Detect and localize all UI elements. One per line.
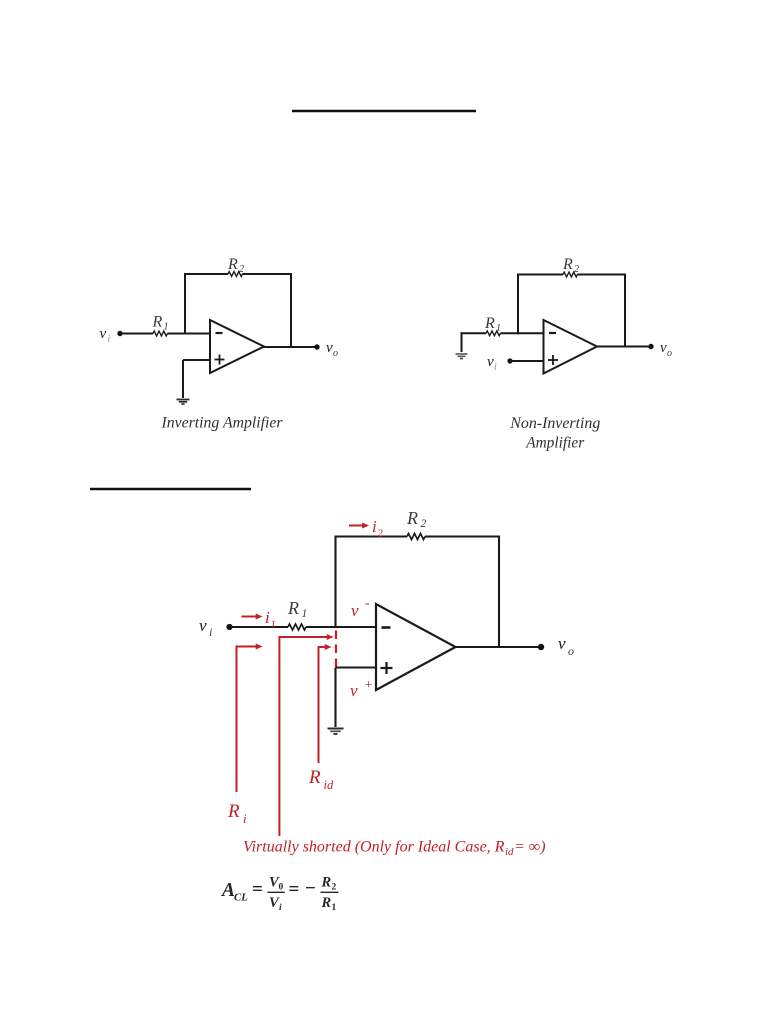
- resistor R2: [563, 272, 577, 277]
- svg-text:i: i: [243, 812, 247, 826]
- svg-text:id: id: [324, 778, 334, 792]
- op-amp U1: [210, 320, 264, 373]
- svg-text:= ∞): = ∞): [514, 839, 546, 856]
- svg-text:R: R: [321, 895, 332, 911]
- svg-text:=: =: [252, 879, 263, 900]
- svg-text:Virtually shorted (Only for Id: Virtually shorted (Only for Ideal Case, …: [243, 839, 505, 856]
- op-amp U3: [376, 604, 456, 690]
- wire feedback right vertical: [498, 536, 500, 649]
- svg-text:id: id: [505, 846, 514, 858]
- virtual short dashed line: [335, 631, 337, 668]
- wire output: [455, 646, 542, 648]
- resistor R1: [486, 331, 500, 336]
- wire feedback top right: [242, 273, 292, 275]
- wire feedback top left: [184, 273, 228, 275]
- svg-text:o: o: [568, 644, 574, 658]
- op-amp minus sign: [549, 332, 556, 334]
- svg-text:i: i: [372, 517, 377, 536]
- node vi dot: [507, 358, 512, 363]
- svg-text:R: R: [562, 256, 573, 273]
- svg-text:R: R: [308, 767, 321, 788]
- svg-text:=: =: [289, 879, 300, 900]
- svg-text:R: R: [484, 315, 495, 332]
- svg-text:CL: CL: [234, 892, 248, 904]
- wire feedback right vertical: [624, 274, 626, 347]
- junction to feedback: [517, 274, 519, 335]
- resistor R1: [153, 331, 167, 336]
- wire R1 to inverting input: [306, 626, 376, 628]
- op-amp minus sign: [382, 626, 391, 629]
- svg-text:v: v: [487, 354, 494, 370]
- heading underline (top): [292, 110, 476, 113]
- svg-text:2: 2: [332, 883, 337, 893]
- wire feedback top right: [425, 535, 500, 537]
- current arrow i2: [349, 525, 364, 527]
- svg-text:i: i: [209, 625, 212, 639]
- op-amp minus sign: [216, 332, 223, 334]
- svg-text:v: v: [350, 681, 358, 700]
- wire feedback top left: [335, 535, 408, 537]
- svg-text:v: v: [326, 340, 333, 356]
- wire output: [596, 346, 651, 348]
- svg-text:i: i: [108, 334, 111, 345]
- svg-text:1: 1: [302, 608, 308, 620]
- svg-text:A: A: [220, 880, 235, 901]
- resistor R2: [228, 272, 242, 277]
- wire input to R1: [230, 626, 289, 628]
- svg-text:2: 2: [378, 529, 384, 540]
- svg-text:Non-Inverting: Non-Inverting: [509, 415, 600, 432]
- resistor R2: [407, 534, 425, 540]
- svg-text:1: 1: [164, 322, 169, 333]
- ground: [328, 728, 344, 730]
- svg-text:2: 2: [574, 264, 579, 275]
- wire feedback top left: [517, 274, 563, 276]
- svg-text:v: v: [558, 634, 566, 653]
- op-amp plus sign: [215, 359, 225, 361]
- junction to feedback: [334, 536, 336, 629]
- svg-text:0: 0: [279, 883, 284, 893]
- svg-text:i: i: [494, 362, 497, 373]
- wire to ground: [334, 668, 336, 728]
- svg-text:v: v: [100, 326, 107, 342]
- node junction to feedback: [184, 273, 186, 335]
- annotation Rid pointer: [319, 647, 326, 763]
- op-amp plus sign: [381, 667, 393, 669]
- node vi input dot: [117, 331, 122, 336]
- svg-text:R: R: [406, 508, 418, 528]
- svg-text:v: v: [199, 616, 207, 635]
- node vo dot: [314, 344, 319, 349]
- wire R1 to op-amp inverting input: [167, 333, 210, 335]
- wire from ground corner: [461, 332, 463, 352]
- svg-text:R: R: [227, 256, 238, 273]
- svg-text:v: v: [660, 340, 667, 356]
- svg-text:Inverting Amplifier: Inverting Amplifier: [161, 415, 284, 432]
- wire feedback right vertical: [290, 273, 292, 347]
- svg-text:Amplifier: Amplifier: [525, 434, 585, 451]
- node vo dot: [648, 344, 653, 349]
- svg-text:i: i: [265, 608, 270, 627]
- svg-text:1: 1: [271, 620, 276, 631]
- svg-text:−: −: [305, 878, 316, 899]
- ground: [456, 353, 468, 355]
- annotation Ri pointer: [237, 647, 257, 793]
- ground: [177, 399, 190, 401]
- wire R1 to inverting input: [500, 332, 543, 334]
- node vi input dot: [226, 624, 232, 630]
- svg-text:2: 2: [421, 518, 427, 530]
- svg-text:1: 1: [496, 323, 501, 334]
- svg-text:R: R: [227, 801, 240, 822]
- annotation virtually-shorted pointer: [279, 637, 327, 836]
- wire output: [263, 346, 317, 348]
- formula A_CL = V0/Vi = -R2/R1: [220, 875, 339, 914]
- resistor R1: [288, 624, 306, 630]
- current arrow i1: [242, 616, 258, 618]
- svg-text:v: v: [351, 601, 359, 620]
- svg-text:o: o: [333, 348, 338, 359]
- wire feedback top right: [577, 274, 626, 276]
- svg-text:R: R: [287, 598, 299, 618]
- svg-text:R: R: [152, 314, 163, 331]
- heading underline (second): [90, 488, 251, 491]
- svg-text:+: +: [365, 678, 373, 693]
- op-amp U2: [544, 320, 598, 374]
- svg-text:-: -: [365, 596, 370, 611]
- wire input to R1: [120, 333, 153, 335]
- node vo dot: [538, 644, 544, 650]
- wire non-inverting input: [336, 666, 377, 668]
- wire vi to non-inverting input: [510, 360, 544, 362]
- svg-text:i: i: [279, 903, 282, 913]
- op-amp plus sign: [548, 359, 558, 361]
- wire non-inverting input: [183, 359, 210, 361]
- svg-text:R: R: [321, 875, 332, 891]
- svg-text:o: o: [667, 348, 672, 359]
- wire to ground: [182, 360, 184, 398]
- svg-text:1: 1: [332, 903, 337, 913]
